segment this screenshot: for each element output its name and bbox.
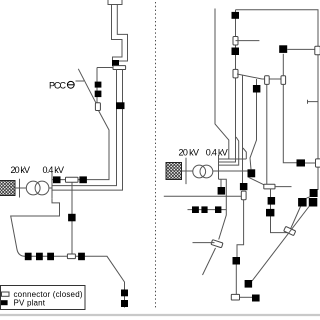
svg-text:20 kV: 20 kV: [11, 165, 31, 175]
svg-text:20 kV: 20 kV: [179, 147, 200, 157]
svg-text:0.4 kV: 0.4 kV: [206, 147, 228, 157]
svg-text:PV plant: PV plant: [14, 299, 46, 308]
svg-text:PCC: PCC: [49, 80, 67, 90]
svg-text:0.4 kV: 0.4 kV: [43, 165, 65, 175]
